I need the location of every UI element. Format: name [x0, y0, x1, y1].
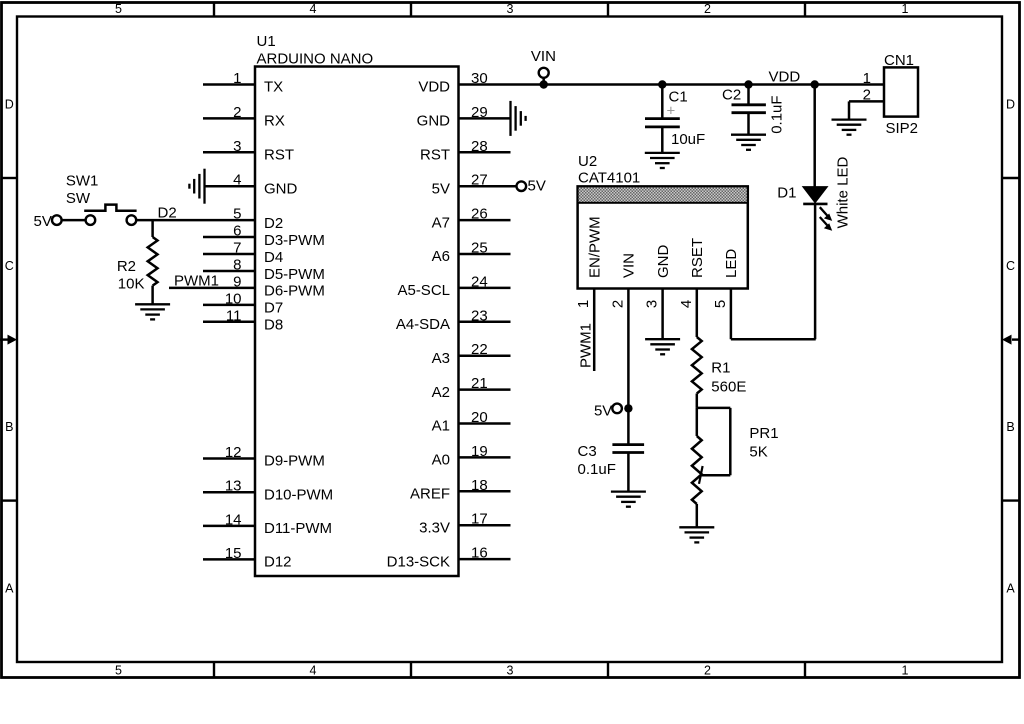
svg-text:B: B [1006, 420, 1014, 434]
column ticks top [213, 3, 215, 17]
svg-text:C: C [5, 259, 14, 273]
node VDD junction to D1 [811, 80, 819, 88]
5V terminal at pin 27 [517, 181, 527, 191]
center arrow right [1012, 338, 1020, 340]
svg-text:17: 17 [471, 511, 488, 528]
U1 pin 4 GND wire [205, 185, 255, 188]
svg-text:D11-PWM: D11-PWM [264, 520, 332, 537]
svg-text:3: 3 [507, 2, 514, 16]
svg-text:7: 7 [233, 240, 241, 257]
svg-text:25: 25 [471, 240, 488, 257]
svg-text:23: 23 [471, 307, 488, 324]
IC U1 ARDUINO NANO body [255, 67, 459, 577]
svg-text:RST: RST [264, 147, 294, 164]
svg-text:A4-SDA: A4-SDA [396, 316, 450, 333]
svg-text:+: + [667, 103, 676, 120]
svg-text:A1: A1 [432, 418, 450, 435]
U1 pin 25 A6 [459, 253, 511, 256]
U1 pin 12 D9-PWM [203, 457, 255, 460]
svg-text:26: 26 [471, 206, 488, 223]
svg-text:5V: 5V [34, 213, 52, 230]
U1 pin 15 D12 [203, 558, 255, 561]
svg-text:GND: GND [264, 180, 298, 197]
svg-text:8: 8 [233, 256, 241, 273]
U1 pin 8 D5-PWM [203, 270, 255, 273]
svg-text:1: 1 [575, 300, 592, 308]
svg-text:3: 3 [644, 300, 661, 308]
svg-text:D3-PWM: D3-PWM [264, 232, 325, 249]
ground below C2 [731, 134, 766, 136]
svg-text:18: 18 [471, 477, 488, 494]
svg-text:A6: A6 [432, 248, 450, 265]
svg-text:A: A [1006, 581, 1015, 595]
svg-text:11: 11 [226, 307, 242, 324]
svg-text:16: 16 [471, 545, 488, 562]
svg-text:1: 1 [902, 663, 909, 677]
ground below R2 [135, 303, 170, 305]
svg-text:C: C [1006, 259, 1015, 273]
U1 pin 23 A4-SDA [459, 321, 511, 324]
svg-text:20: 20 [471, 409, 488, 426]
connector CN1 body [884, 67, 918, 116]
U2 pin1 wire, net PWM1 [593, 289, 596, 372]
svg-text:D5-PWM: D5-PWM [264, 266, 325, 283]
svg-text:10K: 10K [118, 276, 145, 293]
capacitor C3 0.1uF [612, 443, 644, 446]
svg-text:RX: RX [264, 113, 285, 130]
svg-text:4: 4 [678, 300, 695, 308]
U2 pin2 wire to 5V node [627, 289, 630, 445]
svg-text:D6-PWM: D6-PWM [264, 283, 325, 300]
svg-text:TX: TX [264, 79, 283, 96]
svg-text:R2: R2 [117, 258, 136, 275]
row ticks left [2, 177, 18, 179]
row ticks right [1002, 177, 1020, 179]
U1 pin 17 3.3V [459, 524, 511, 527]
svg-text:0.1uF: 0.1uF [769, 95, 786, 133]
U1 pin 3 RST [203, 151, 255, 154]
svg-text:3: 3 [233, 138, 241, 155]
svg-text:A7: A7 [432, 214, 450, 231]
svg-text:A: A [5, 581, 14, 595]
svg-text:U1: U1 [257, 33, 276, 50]
svg-text:D2: D2 [264, 215, 283, 232]
svg-text:SIP2: SIP2 [886, 120, 919, 137]
svg-text:6: 6 [233, 223, 241, 240]
U2 pin5 wire to LED [730, 289, 733, 340]
svg-text:1: 1 [863, 70, 871, 87]
svg-text:VIN: VIN [621, 253, 638, 278]
U1 pin 26 A7 [459, 219, 511, 222]
svg-text:VIN: VIN [531, 48, 556, 65]
U1 pin 28 RST [459, 151, 511, 154]
svg-text:SW: SW [66, 190, 91, 207]
ground at CN1 pin 2 [832, 118, 867, 120]
U1 pin 20 A1 [459, 422, 511, 425]
svg-text:28: 28 [471, 138, 488, 155]
svg-text:4: 4 [310, 2, 317, 16]
svg-text:21: 21 [471, 375, 488, 392]
U2 pin3 GND wire [661, 289, 664, 340]
LED D1 light arrows [820, 207, 828, 215]
svg-text:5V: 5V [594, 402, 612, 419]
svg-text:2: 2 [704, 663, 711, 677]
U1 pin 19 A0 [459, 456, 511, 459]
svg-text:2: 2 [233, 104, 241, 121]
svg-text:5K: 5K [749, 444, 767, 461]
svg-text:560E: 560E [711, 379, 746, 396]
svg-text:ARDUINO NANO: ARDUINO NANO [257, 51, 374, 68]
svg-text:GND: GND [417, 113, 451, 130]
svg-text:1: 1 [233, 70, 241, 87]
CN1 pin 2 wire [849, 100, 884, 103]
U1 pin 16 D13-SCK [459, 558, 511, 561]
svg-text:PWM1: PWM1 [578, 323, 595, 368]
svg-text:D7: D7 [264, 300, 283, 317]
svg-text:VDD: VDD [418, 79, 450, 96]
svg-text:R1: R1 [711, 360, 730, 377]
svg-text:D: D [5, 97, 14, 111]
svg-text:B: B [5, 420, 13, 434]
U1 pin 9 D6-PWM [169, 287, 255, 290]
svg-text:C2: C2 [722, 87, 741, 104]
svg-text:A5-SCL: A5-SCL [397, 282, 450, 299]
wire U1 pin30 VDD rail [459, 83, 885, 86]
svg-text:3.3V: 3.3V [419, 519, 450, 536]
svg-text:19: 19 [471, 443, 488, 460]
svg-text:D10-PWM: D10-PWM [264, 486, 333, 503]
LED D1 White LED [813, 85, 816, 187]
U1 pin 11 D8 [203, 321, 255, 324]
U1 pin 10 D7 [203, 304, 255, 307]
svg-text:10uF: 10uF [671, 131, 705, 148]
svg-text:2: 2 [863, 87, 871, 104]
svg-text:D2: D2 [158, 204, 177, 221]
U1 pin 2 RX [203, 117, 255, 120]
U1 pin 21 A2 [459, 388, 511, 391]
U1 pin 1 TX [203, 83, 255, 86]
wire SW1 to U1 pin 5, net D2 [136, 219, 255, 222]
ground below U2 pin3 [645, 338, 680, 340]
svg-text:LED: LED [723, 249, 740, 278]
ground below C1 [645, 152, 680, 154]
resistor R2 10K [151, 220, 154, 237]
svg-text:12: 12 [225, 444, 242, 461]
svg-text:EN/PWM: EN/PWM [586, 216, 603, 278]
svg-text:2: 2 [704, 2, 711, 16]
svg-text:D: D [1006, 97, 1015, 111]
center arrow left [0, 338, 9, 340]
svg-text:AREF: AREF [410, 486, 450, 503]
svg-text:D9-PWM: D9-PWM [264, 453, 325, 470]
svg-text:5V: 5V [432, 180, 450, 197]
svg-text:1: 1 [902, 2, 909, 16]
node 5V mid [612, 404, 622, 414]
svg-text:5: 5 [115, 2, 122, 16]
PR1 wiper [699, 466, 703, 484]
capacitor C1 10uF [658, 80, 666, 88]
svg-text:4: 4 [310, 663, 317, 677]
svg-text:PR1: PR1 [749, 425, 778, 442]
ground at U1 pin 29 [509, 101, 511, 136]
column ticks bottom [213, 662, 215, 678]
ground at U1 pin 4 [203, 169, 205, 204]
wire 5V to SW1 [62, 219, 86, 222]
ground below C3 [611, 490, 646, 492]
svg-text:D4: D4 [264, 249, 283, 266]
svg-text:White LED: White LED [835, 157, 852, 229]
svg-text:2: 2 [609, 300, 626, 308]
svg-text:5: 5 [115, 663, 122, 677]
svg-text:D13-SCK: D13-SCK [387, 553, 450, 570]
U1 pin 27 5V wire [459, 185, 517, 188]
U1 pin 24 A5-SCL [459, 287, 511, 290]
U1 pin 14 D11-PWM [203, 525, 255, 528]
svg-text:A3: A3 [432, 350, 450, 367]
svg-text:3: 3 [507, 663, 514, 677]
svg-text:CAT4101: CAT4101 [578, 170, 640, 187]
svg-text:PWM1: PWM1 [174, 272, 219, 289]
U1 pin 29 GND wire [459, 117, 511, 120]
svg-text:10: 10 [225, 290, 242, 307]
svg-text:C3: C3 [578, 443, 597, 460]
capacitor C2 0.1uF [744, 80, 752, 88]
svg-text:RST: RST [420, 147, 450, 164]
svg-text:CN1: CN1 [884, 52, 914, 69]
svg-text:D12: D12 [264, 554, 292, 571]
switch SW1 [86, 215, 96, 225]
svg-text:VDD: VDD [769, 69, 801, 86]
svg-text:RSET: RSET [689, 238, 706, 278]
svg-text:D1: D1 [777, 185, 796, 202]
ground below PR1 [679, 526, 714, 528]
svg-text:13: 13 [225, 478, 242, 495]
svg-text:D8: D8 [264, 317, 283, 334]
svg-text:SW1: SW1 [66, 172, 99, 189]
resistor R1 560E [696, 289, 699, 338]
svg-text:9: 9 [233, 273, 241, 290]
svg-text:A0: A0 [432, 452, 450, 469]
potentiometer PR1 5K [697, 407, 731, 410]
svg-text:0.1uF: 0.1uF [578, 461, 616, 478]
svg-text:22: 22 [471, 341, 488, 358]
U1 pin 6 D3-PWM [203, 236, 255, 239]
svg-text:24: 24 [471, 273, 488, 290]
U1 pin 7 D4 [203, 253, 255, 256]
U1 pin 18 AREF [459, 490, 511, 493]
U1 pin 22 A3 [459, 354, 511, 357]
svg-text:U2: U2 [578, 153, 597, 170]
svg-text:5: 5 [712, 300, 729, 308]
svg-text:A2: A2 [432, 384, 450, 401]
svg-text:GND: GND [655, 245, 672, 279]
svg-text:14: 14 [225, 511, 242, 528]
svg-text:5V: 5V [528, 178, 546, 195]
U1 pin 13 D10-PWM [203, 491, 255, 494]
svg-text:15: 15 [225, 545, 242, 562]
